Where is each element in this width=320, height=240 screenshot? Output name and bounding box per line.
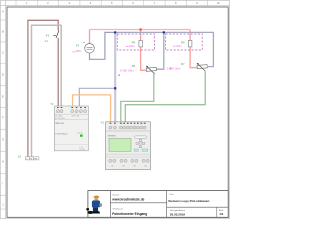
wire red +V bus from dc source to resistors bbox=[90, 30, 198, 71]
svg-text:X2: X2 bbox=[18, 155, 22, 159]
wire green wiper R7 to plc I2 bbox=[125, 71, 205, 122]
marker magenta small 2 bbox=[170, 68, 172, 70]
svg-text:Q4: Q4 bbox=[145, 165, 147, 167]
label Ohm R5 bbox=[173, 44, 183, 48]
svg-text:0-10K Ohm: 0-10K Ohm bbox=[167, 67, 182, 71]
svg-text:R7: R7 bbox=[181, 62, 185, 66]
potentiometer R7 bbox=[197, 63, 208, 71]
title block bbox=[88, 191, 228, 218]
svg-text:Q3: Q3 bbox=[133, 165, 135, 167]
svg-text:Q1: Q1 bbox=[111, 165, 113, 167]
dashed enclosure R4 bbox=[117, 34, 154, 50]
svg-text:DC 24V: DC 24V bbox=[80, 149, 85, 151]
svg-text:F3: F3 bbox=[76, 44, 80, 48]
terminal block X2 bbox=[25, 157, 39, 161]
marker magenta small 1 bbox=[118, 74, 120, 76]
junction blue node R6 drop bbox=[163, 31, 165, 33]
dc source F3 bbox=[83, 42, 94, 53]
label Ohm R4 bbox=[126, 44, 136, 48]
svg-text:R5: R5 bbox=[181, 40, 185, 44]
svg-text:Titel: Titel bbox=[169, 193, 174, 196]
svg-text:6EP1 331: 6EP1 331 bbox=[55, 123, 63, 125]
junction blue node top bbox=[114, 31, 116, 33]
svg-text:Siemens Logo Poti einbauen: Siemens Logo Poti einbauen bbox=[168, 199, 209, 203]
wire 0V bus across top bbox=[115, 32, 213, 66]
svg-text:0-10K Ohm: 0-10K Ohm bbox=[120, 69, 135, 73]
breaker F2 symbol bbox=[53, 31, 59, 38]
svg-text:10: 10 bbox=[217, 1, 220, 5]
svg-text:Ohm: Ohm bbox=[176, 44, 183, 48]
junction red node bbox=[140, 28, 142, 30]
svg-text:Q2: Q2 bbox=[123, 165, 125, 167]
logo mascot bbox=[86, 196, 102, 214]
potentiometer R6 bbox=[146, 66, 157, 74]
svg-text:SIEMENS: SIEMENS bbox=[108, 135, 117, 137]
resistor R4 bbox=[139, 40, 143, 47]
svg-text:H: H bbox=[2, 160, 4, 164]
dashed enclosure R5 bbox=[166, 34, 203, 50]
svg-text:-K1: -K1 bbox=[100, 121, 105, 124]
junction M node bbox=[114, 87, 116, 89]
wire orange +24V from T2 to plc L+ bbox=[73, 95, 111, 122]
svg-text:G: G bbox=[2, 138, 4, 142]
svg-text:www.kreativekiste.de: www.kreativekiste.de bbox=[111, 198, 144, 202]
svg-text:R6: R6 bbox=[132, 64, 136, 68]
svg-text:Sachnr: Sachnr bbox=[112, 194, 119, 197]
resistor R5 bbox=[188, 40, 192, 47]
page frame and rulers (decorative) bbox=[0, 0, 229, 218]
wire green wiper R6 to plc I1 bbox=[121, 74, 154, 122]
svg-text:E: E bbox=[2, 95, 4, 99]
wire N grey: X2 up, across, down to power supply T2 bbox=[32, 25, 62, 157]
wire drop to potentiometer R6 right bbox=[157, 32, 164, 69]
plc K1 Siemens LOGO bbox=[106, 122, 151, 170]
svg-text:A: A bbox=[2, 10, 4, 14]
label VDC bbox=[72, 49, 81, 53]
svg-text:VDC: VDC bbox=[76, 49, 82, 53]
wire blue 0V: dc source bottom loop to bus bbox=[90, 32, 115, 59]
wire 0V lavender vertical to plc M terminal bbox=[114, 32, 116, 122]
wire purple 0V from T2 minus terminal bbox=[79, 88, 114, 106]
svg-text:Ohm: Ohm bbox=[129, 44, 136, 48]
svg-text:24V OK: 24V OK bbox=[77, 132, 82, 134]
svg-text:LOGO!Power: LOGO!Power bbox=[55, 134, 67, 136]
wire L brown: X2 up, across, down through breaker F2 to power supply T2 bbox=[28, 20, 58, 157]
svg-text:B: B bbox=[2, 30, 4, 34]
svg-text:Ausgabedatum: Ausgabedatum bbox=[170, 209, 185, 212]
svg-text:TitelZusatz: TitelZusatz bbox=[112, 207, 123, 210]
svg-text:R4: R4 bbox=[132, 41, 136, 45]
svg-text:-4A: -4A bbox=[44, 39, 49, 43]
svg-text:Potentiometer Eingang: Potentiometer Eingang bbox=[112, 212, 147, 216]
power supply T2 LOGO!Power bbox=[54, 106, 88, 151]
svg-text:1/1: 1/1 bbox=[219, 212, 224, 216]
svg-text:C: C bbox=[2, 51, 4, 55]
svg-text:F2: F2 bbox=[46, 34, 50, 38]
svg-text:20.03.2019: 20.03.2019 bbox=[170, 212, 185, 216]
svg-text:D: D bbox=[2, 73, 4, 77]
